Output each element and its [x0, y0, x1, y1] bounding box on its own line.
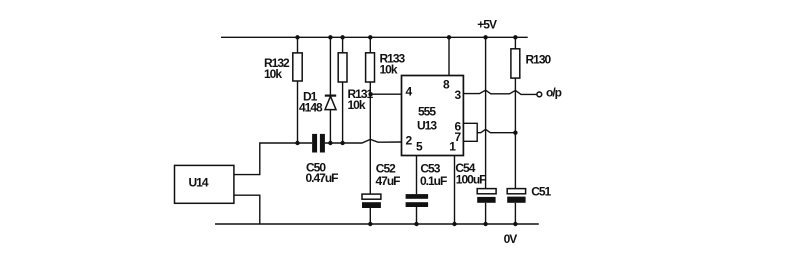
resistor R131 body: [338, 53, 347, 82]
wire C54 bottom lead: [485, 203, 487, 224]
wire U14 upper pin to C50 node: [233, 143, 312, 175]
svg-text:C51: C51: [531, 185, 551, 199]
wire C50 to pin 2 with hop over R133 column: [325, 139, 402, 143]
resistor R130 body: [511, 49, 520, 78]
svg-text:o/p: o/p: [546, 85, 562, 99]
wire R133 bottom lead down to C52: [369, 82, 371, 194]
svg-text:+5V: +5V: [477, 18, 497, 32]
junction node R132/C50: [295, 141, 299, 145]
junction bottom rail C52: [368, 222, 372, 226]
svg-text:47uF: 47uF: [376, 174, 401, 188]
wire +5V top rail: [221, 36, 528, 38]
junction top rail D1: [328, 35, 332, 39]
svg-text:U14: U14: [189, 176, 209, 190]
diode D1 triangle: [325, 96, 336, 109]
wire pin 3 to o/p with hops: [463, 90, 537, 94]
wire R132 top lead: [297, 37, 299, 53]
junction top rail R130: [513, 35, 517, 39]
wire C51 bottom lead: [514, 203, 516, 224]
wire D1 top lead: [329, 37, 331, 95]
wire R130 bottom lead down to C51: [514, 78, 516, 189]
junction bottom rail C53: [414, 222, 418, 226]
wire R131 bottom lead: [342, 82, 344, 143]
wire C54 column: [485, 37, 487, 188]
junction bottom rail pin1: [452, 222, 456, 226]
junction top rail R131: [340, 35, 344, 39]
IC U13 555 box: [402, 76, 464, 156]
svg-text:10k: 10k: [348, 98, 366, 112]
junction node D1 trigger: [328, 141, 332, 145]
junction top rail pin8: [447, 35, 451, 39]
resistor R133 body: [366, 53, 375, 82]
wire C52 bottom lead: [369, 208, 371, 224]
capacitor C54 plates (electrolytic): [477, 189, 496, 194]
wire 6-7 tap to timing node with hop: [477, 129, 515, 132]
capacitor C50 plates: [312, 134, 317, 153]
wire C53 bottom lead: [416, 207, 418, 224]
diode D1 cathode bar: [325, 94, 336, 96]
svg-text:10k: 10k: [380, 63, 398, 77]
junction top rail R132: [295, 35, 299, 39]
svg-text:555: 555: [418, 105, 436, 119]
wire pin 8 to +5V: [448, 37, 450, 75]
junction bottom rail C51: [513, 222, 517, 226]
capacitor C52 plates (electrolytic): [362, 194, 381, 199]
svg-text:0.47uF: 0.47uF: [306, 171, 339, 185]
wire reset node to pin 4: [370, 93, 401, 95]
o/p terminal circle: [537, 92, 542, 97]
junction node R131 trigger: [340, 141, 344, 145]
capacitor C53 plates: [406, 194, 429, 199]
svg-text:U13: U13: [417, 118, 437, 132]
junction node reset pin4: [368, 92, 372, 96]
svg-text:4148: 4148: [299, 101, 323, 115]
svg-text:10k: 10k: [264, 67, 282, 81]
wire U14 lower pin to 0V: [233, 195, 260, 224]
svg-text:100uF: 100uF: [456, 172, 486, 186]
wire pins 6-7 bracket: [463, 123, 477, 141]
resistor R132 body: [293, 53, 302, 81]
wire R133 top lead: [369, 37, 371, 53]
junction bottom rail C54: [483, 222, 487, 226]
junction top rail R133: [368, 35, 372, 39]
wire D1 bottom lead: [329, 109, 331, 143]
wire pin 5 to C53: [416, 156, 418, 195]
wire pin 1 to 0V: [454, 156, 456, 225]
box U14: [175, 165, 234, 203]
wire R131 top lead: [342, 37, 344, 53]
svg-text:R130: R130: [526, 53, 552, 67]
svg-text:0V: 0V: [504, 232, 518, 246]
junction top rail C54: [483, 35, 487, 39]
wire 0V bottom rail: [215, 223, 539, 225]
svg-text:0.1uF: 0.1uF: [420, 174, 447, 188]
junction node timing 6-7: [513, 131, 517, 135]
wire R130 top lead: [514, 37, 516, 49]
capacitor C51 plates (electrolytic): [507, 189, 525, 194]
wire R132 bottom lead: [297, 81, 299, 143]
